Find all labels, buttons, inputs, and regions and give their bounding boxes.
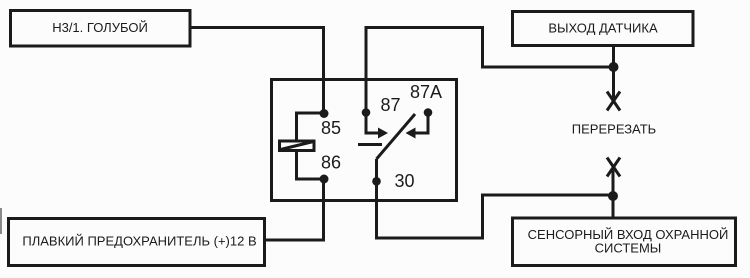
svg-text:СИСТЕМЫ: СИСТЕМЫ [595,241,662,256]
wire: Н3/1 box to relay pin 85 [191,28,324,114]
relay coil [280,141,315,151]
box: relay body [272,80,457,201]
wire: J1 down to cut mark [612,67,615,101]
wire: sensor output box to junction J1 [612,47,615,67]
node: relay pin 87 [362,108,371,117]
contact arm of pin 87A with arrowhead [406,113,429,139]
svg-text:85: 85 [321,118,341,138]
node: junction J2 [608,191,618,201]
svg-text:ВЫХОД ДАТЧИКА: ВЫХОД ДАТЧИКА [548,21,658,36]
wire: pin 30 down, right and up to junction J2 [377,181,613,238]
box: ПЛАВКИЙ ПРЕДОХРАНИТЕЛЬ (+)12 В [9,219,265,266]
node: junction J1 [609,62,619,72]
cut mark X2 [607,158,620,177]
contact arm of pin 87 with arrowhead [366,113,388,139]
svg-text:87: 87 [381,95,401,115]
svg-text:87А: 87А [410,82,442,102]
wire: pin 85 to coil top [297,113,324,141]
svg-text:ПЛАВКИЙ ПРЕДОХРАНИТЕЛЬ (+)12 В: ПЛАВКИЙ ПРЕДОХРАНИТЕЛЬ (+)12 В [22,234,256,249]
node: relay pin 85 [320,109,329,118]
svg-text:Н3/1. ГОЛУБОЙ: Н3/1. ГОЛУБОЙ [52,20,148,35]
node: relay pin 30 [372,177,381,186]
wire: pin 86 to fuse box [266,179,324,240]
cut mark X1 [607,92,620,111]
node: relay pin 87A [424,108,433,117]
svg-text:86: 86 [321,153,341,173]
wire: cut mark X2 to junction J2 [612,170,615,196]
wire: blade pivot to pin 30 [375,159,378,181]
svg-text:30: 30 [395,171,415,191]
box: ВЫХОД ДАТЧИКА [513,12,694,46]
switch blade [377,114,416,159]
wire: pin 87 up and right to junction J1 [366,28,613,114]
box: СЕНСОРНЫЙ ВХОД ОХРАННОЙ СИСТЕМЫ [513,218,736,266]
wire: J2 to sensor input box [612,196,615,217]
box: Н3/1. ГОЛУБОЙ [11,11,191,47]
wire: scan artifact at left edge [0,208,2,234]
wire: coil bottom to pin 86 [297,150,324,179]
svg-text:ПЕРЕРЕЗАТЬ: ПЕРЕРЕЗАТЬ [572,122,656,137]
node: relay pin 86 [320,175,329,184]
movable contact bar [358,143,382,146]
